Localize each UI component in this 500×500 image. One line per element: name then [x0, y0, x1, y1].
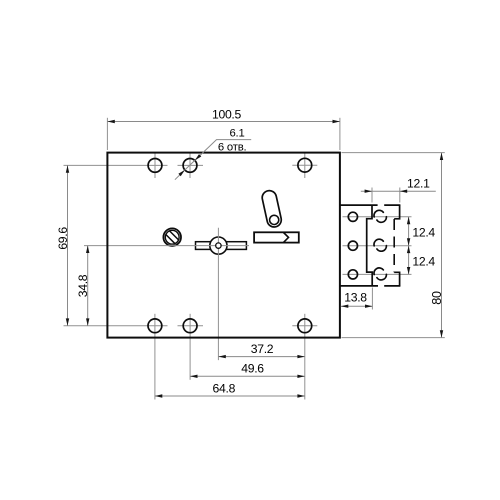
lever boss circle: [210, 237, 227, 254]
dim 80 line: [441, 153, 443, 338]
side hole S2: [348, 241, 357, 250]
hole H2 crosshair horizontal: [178, 164, 204, 166]
mounting hole H5: [183, 319, 197, 333]
side view row centerlines: [343, 216, 412, 218]
dim 12.1 extension lines: [371, 188, 373, 203]
lever center hole: [216, 243, 221, 248]
hole H1 crosshair vertical: [154, 153, 156, 178]
svg-text:12.4: 12.4: [412, 254, 435, 268]
side view top edge: [339, 204, 378, 206]
cylinder pin (pill): [261, 189, 283, 228]
lock body outline: [107, 153, 340, 338]
svg-text:64.8: 64.8: [213, 381, 236, 395]
hole H2 crosshair vertical: [189, 153, 191, 178]
thread symbol T2: [374, 239, 383, 246]
side view left leaf stepped edge: [367, 205, 373, 286]
svg-text:34.8: 34.8: [76, 274, 90, 297]
dim 64.8 line: [155, 395, 305, 397]
thread symbol T3: [374, 268, 383, 275]
svg-text:69.6: 69.6: [56, 227, 70, 250]
side view right leaf solid bottom tab: [394, 272, 399, 286]
hole H3 crosshair horizontal: [292, 164, 317, 166]
dim 34.8 line: [87, 246, 89, 326]
svg-text:37.2: 37.2: [251, 342, 274, 356]
dim 80 extension lines: [342, 152, 445, 154]
dim 49.6 line: [190, 375, 305, 377]
svg-text:6.1: 6.1: [229, 127, 244, 139]
svg-text:12.4: 12.4: [412, 226, 435, 240]
side hole S3: [348, 270, 357, 279]
dim 37.2 line: [218, 356, 304, 358]
dim 100.5 line: [107, 121, 340, 123]
screw slot lines: [166, 231, 178, 243]
dim 100.5 extension lines: [106, 118, 108, 150]
svg-text:49.6: 49.6: [241, 362, 264, 376]
thread symbol T1: [374, 210, 383, 217]
side view bottom edge: [339, 285, 378, 287]
hole H6 crosshair horizontal: [292, 325, 317, 327]
dim 13.8 line: [341, 305, 373, 307]
centerline bottom hole row (69.6/34.8 bottom extension): [64, 325, 168, 327]
side view right leaf hidden dashed edge: [393, 219, 395, 272]
lever bar: [196, 242, 247, 250]
mounting hole H1: [148, 159, 162, 173]
mounting hole H4: [148, 319, 162, 333]
hole H4 crosshair vertical (to 64.8 dim): [154, 314, 156, 400]
screw head outer circle: [163, 228, 181, 246]
hole H5 crosshair horizontal: [178, 325, 204, 327]
lever vertical centerline / 37.2 extension: [217, 228, 219, 360]
side hole S1: [348, 212, 357, 221]
leader 6.1 / 6 otv.: [185, 140, 251, 170]
mounting hole H6: [298, 319, 312, 333]
svg-text:6 отв.: 6 отв.: [218, 142, 247, 154]
screw head inner circle: [165, 230, 179, 244]
latch chevron: [284, 233, 289, 243]
svg-text:100.5: 100.5: [212, 107, 242, 121]
svg-text:12.1: 12.1: [407, 177, 430, 191]
svg-text:13.8: 13.8: [344, 291, 367, 305]
mounting hole H3: [298, 158, 312, 172]
middle horizontal centerline (34.8 top ext): [84, 245, 249, 247]
side view right leaf solid top tab: [394, 205, 399, 219]
dim 12.4 upper: [408, 217, 410, 246]
latch bolt rectangle: [254, 232, 299, 242]
dim 12.1 line + outside arrows: [361, 190, 436, 192]
hole H5 crosshair vertical (to 49.6 dim): [189, 314, 191, 380]
mounting hole H2: [183, 159, 197, 173]
hole H6 crosshair vertical (to 64.8 dim): [304, 314, 306, 400]
centerline top hole row (69.6 top extension): [64, 164, 168, 166]
dim 69.6 line: [67, 165, 69, 325]
dim 12.4 lower: [408, 246, 410, 275]
dim 13.8 extension line: [371, 288, 373, 310]
hole H3 crosshair vertical: [304, 153, 306, 178]
svg-text:80: 80: [430, 291, 444, 305]
